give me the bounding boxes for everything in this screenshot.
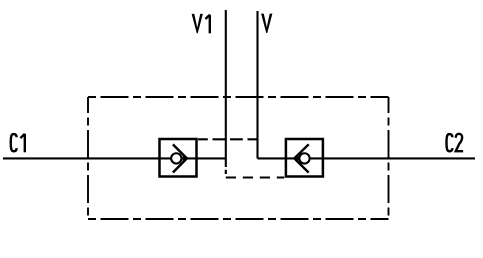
label V1 xyxy=(192,14,210,33)
label C2 xyxy=(447,134,464,151)
pilot line (dashed) to left check valve xyxy=(198,138,258,140)
check valve CV1 ball xyxy=(171,153,181,163)
wire V vertical line xyxy=(256,11,258,158)
wire V to C2 main line xyxy=(258,157,476,159)
check valve CV2 seat wedge xyxy=(294,154,299,164)
wire V1 vertical line xyxy=(225,10,227,167)
pilot line (dashed) to right check valve xyxy=(225,167,227,178)
label C1 xyxy=(11,134,25,153)
label V xyxy=(261,14,272,33)
check valve CV1 seat chevron xyxy=(173,144,187,172)
check valve CV2 ball xyxy=(299,153,309,163)
valve body enclosure (dash-dot box) xyxy=(88,97,389,219)
check valve CV2 box xyxy=(286,139,323,177)
wire C1 main line xyxy=(3,157,226,159)
check valve CV2 seat chevron xyxy=(294,144,308,172)
check valve CV1 box xyxy=(160,139,197,177)
check valve CV1 seat wedge xyxy=(183,154,188,164)
